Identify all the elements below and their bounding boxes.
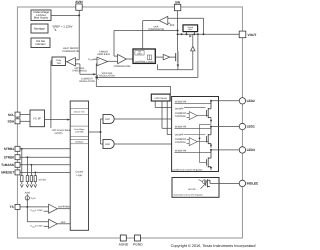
svg-text:DAC: DAC — [105, 143, 110, 146]
wire LED2 out — [211, 100, 239, 102]
svg-text:ON/OFF: ON/OFF — [175, 133, 184, 136]
wire SW vertical — [177, 11, 179, 51]
pin VOUT — [239, 31, 256, 38]
svg-text:Bandgap: Bandgap — [34, 28, 45, 31]
svg-text:CONTROL: CONTROL — [175, 141, 187, 144]
label CURRENT REGULATION — [79, 78, 95, 84]
comparator: TS ADC — [27, 207, 70, 228]
svg-text:NRESET: NRESET — [1, 171, 14, 175]
block: control logic — [133, 49, 155, 63]
comparator: PWM comparator — [114, 54, 133, 67]
svg-text:HDC/IB →: HDC/IB → — [188, 188, 198, 191]
wire sense stubs to regulator — [155, 101, 171, 135]
svg-text:Copyright © 2016, Texas Instru: Copyright © 2016, Texas Instruments Inco… — [171, 244, 256, 248]
svg-text:CURRENT: CURRENT — [175, 112, 187, 115]
wire VOUT rail — [178, 33, 240, 35]
svg-text:(STOP): (STOP) — [55, 132, 63, 135]
transistor Q1 boost NFET — [176, 51, 178, 63]
svg-text:= 0.45V: = 0.45V — [35, 225, 43, 228]
svg-text:Controller: Controller — [75, 131, 84, 134]
svg-text:PGND: PGND — [133, 242, 143, 246]
diode D1 (rectifier body diode) — [191, 34, 195, 70]
svg-text:COMPARATOR: COMPARATOR — [148, 28, 164, 31]
svg-text:Indicator: Indicator — [35, 43, 45, 46]
buffer gate driver — [155, 54, 175, 59]
node pulldown taps — [21, 148, 23, 150]
svg-text:x100 Sense: x100 Sense — [154, 97, 167, 100]
svg-text:AVIN: AVIN — [75, 0, 83, 4]
block: I2C interface — [30, 110, 45, 127]
op-amp ch2 — [189, 138, 197, 146]
transistor Q5 indicator FET — [206, 179, 210, 187]
DAC U3 — [103, 139, 172, 148]
block: control registers / logic — [70, 101, 88, 230]
svg-text:AMPLIFIER: AMPLIFIER — [97, 53, 110, 56]
channel 1 (LED2) — [175, 100, 213, 125]
wire comparator ramp feed vertical — [113, 31, 115, 57]
ground symbols for pulldowns — [20, 184, 37, 187]
pin LED1 — [239, 123, 255, 129]
transistor Q4 ch3 FET — [200, 162, 207, 164]
pin NRESET — [1, 170, 20, 175]
block: parallel LED current regulator — [172, 97, 219, 172]
node TS junction — [26, 206, 28, 208]
pin INDLED — [239, 180, 259, 186]
pin STRB0 — [4, 155, 20, 160]
svg-text:100 kΩ: 100 kΩ — [38, 179, 46, 182]
svg-text:I²C I/F: I²C I/F — [33, 117, 41, 120]
svg-text:CONTROL: CONTROL — [175, 115, 187, 118]
svg-text:Bias Supply: Bias Supply — [34, 17, 49, 20]
svg-text:TxMASK: TxMASK — [1, 163, 15, 167]
block: Duty Trim — [52, 57, 65, 66]
wire SDA — [20, 120, 30, 122]
pin AVIN — [75, 0, 83, 10]
block: Undervoltage Lockout Bias Supply — [31, 10, 51, 21]
svg-text:LED3: LED3 — [247, 148, 255, 152]
svg-text:SW: SW — [175, 0, 180, 4]
svg-text:SENSE FB: SENSE FB — [175, 101, 187, 104]
rail current arrow mark — [189, 35, 192, 37]
wire LED3 out — [211, 149, 239, 151]
svg-text:COMPARATOR: COMPARATOR — [114, 65, 131, 68]
svg-text:CURRENT: CURRENT — [175, 138, 187, 141]
comparator: heat droop comparator — [62, 47, 87, 74]
svg-text:THRESHOLD: THRESHOLD — [72, 70, 87, 73]
wire AVIN branch to UVLO — [51, 14, 79, 16]
svg-text:OVERTEMP: OVERTEMP — [58, 206, 71, 209]
DAC U2 — [103, 114, 172, 123]
resistors R1-R4 pulldowns — [21, 149, 37, 185]
svg-text:DAC: DAC — [105, 118, 110, 121]
pin SW — [174, 0, 180, 10]
block: Bandgap — [31, 24, 48, 33]
wire INDLED out — [219, 182, 239, 184]
wire ramp feed horizontal to SW node — [114, 30, 178, 32]
svg-text:COMPARATOR: COMPARATOR — [62, 50, 79, 53]
op-amp: error amplifier — [88, 51, 118, 67]
label VOLTAGE REGULATION — [99, 72, 115, 78]
node FB junction — [95, 76, 97, 78]
pin LED3 — [239, 147, 255, 153]
op-amp ch1 — [189, 112, 197, 120]
block: illumination LED current regulator — [172, 178, 219, 198]
wire STRB1 / STRB0 / TxMASK / NRESET — [20, 149, 70, 173]
pin TxMASK — [1, 162, 20, 167]
block: x100 sense — [151, 94, 170, 101]
chip outline U1 — [17, 7, 242, 238]
svg-text:INDLED: INDLED — [247, 182, 258, 186]
node SW/ramp junction — [177, 30, 179, 32]
svg-text:CONTROL LOGIC: CONTROL LOGIC — [135, 60, 154, 63]
svg-text:STRB0: STRB0 — [4, 155, 15, 159]
wire sense loop — [158, 64, 193, 69]
svg-text:Trim: Trim — [56, 62, 61, 65]
svg-text:LED Control Bank: LED Control Bank — [52, 129, 71, 132]
node AVIN junction — [78, 14, 80, 16]
svg-text:Illumination LED Current Regul: Illumination LED Current Regulator — [174, 194, 204, 197]
svg-text:Timer: Timer — [137, 53, 142, 56]
wire SCL — [20, 114, 30, 116]
svg-text:ADC: ADC — [61, 221, 66, 224]
block: synchronous rectifier — [183, 25, 198, 34]
svg-text:Oscillator: Oscillator — [75, 141, 84, 144]
current source I1 2uA — [25, 192, 36, 207]
wire voltage-regulation feedback — [96, 34, 198, 77]
pin AGND — [119, 235, 129, 246]
svg-text:= 1.05V: = 1.05V — [35, 209, 43, 212]
pin PGND — [133, 235, 143, 246]
transistor Q3 ch2 FET — [206, 127, 211, 145]
node rail junctions — [177, 33, 179, 35]
svg-text:SDA: SDA — [7, 120, 14, 124]
svg-text:STRB1: STRB1 — [4, 147, 15, 151]
channel 3 (LED3) — [175, 149, 213, 170]
svg-text:VREF = 1.226V: VREF = 1.226V — [52, 25, 72, 29]
svg-text:REGULATION: REGULATION — [79, 80, 95, 83]
wire ch interlink — [199, 124, 201, 162]
block: Hot Die Indicator — [31, 38, 50, 48]
channel 2 (LED1) — [175, 124, 213, 162]
svg-text:ON/OFF: ON/OFF — [175, 107, 184, 110]
svg-text:AVIN: AVIN — [25, 192, 31, 195]
svg-text:REF: REF — [170, 24, 175, 27]
svg-text:AGND: AGND — [119, 242, 129, 246]
svg-text:Logic: Logic — [76, 174, 83, 177]
svg-text:2 µA: 2 µA — [31, 197, 36, 200]
current source I2 — [203, 180, 207, 184]
pin STRB1 — [4, 146, 20, 151]
transistor Q2 ch1 FET — [206, 101, 211, 118]
wire duty trim to LED control bank — [51, 61, 52, 128]
svg-text:parallel LED Current Regulator: parallel LED Current Regulator — [173, 168, 203, 171]
node DAC split — [100, 131, 102, 133]
svg-text:SCL: SCL — [8, 113, 14, 117]
pin SCL — [8, 112, 20, 117]
svg-text:VOUT: VOUT — [248, 33, 257, 37]
comparator: overtemp — [30, 204, 71, 213]
wire DAC feed — [89, 119, 104, 144]
wire AVIN vertical — [78, 10, 80, 60]
wire I2C bus to control — [45, 119, 71, 121]
wire current-regulation feedback — [96, 64, 170, 94]
svg-text:LED2: LED2 — [247, 99, 255, 103]
pin LED2 — [239, 98, 255, 104]
net label LED Control Bank (STOP) — [52, 129, 71, 135]
svg-text:TS: TS — [10, 205, 14, 209]
svg-text:LED1: LED1 — [247, 125, 255, 129]
comparator: OVP comparator — [143, 16, 204, 49]
svg-text:Max In Trim: Max In Trim — [74, 110, 85, 113]
pin SDA — [7, 119, 20, 124]
wire hot-die trim path with arrow — [80, 73, 96, 75]
wire LED1 out — [211, 126, 239, 128]
pin TS — [10, 204, 20, 209]
wire TS — [20, 206, 49, 208]
svg-text:Rect: Rect — [188, 28, 193, 31]
svg-text:REGULATION: REGULATION — [99, 74, 115, 77]
label VREF = 1.226V with leader arrow — [52, 25, 72, 31]
